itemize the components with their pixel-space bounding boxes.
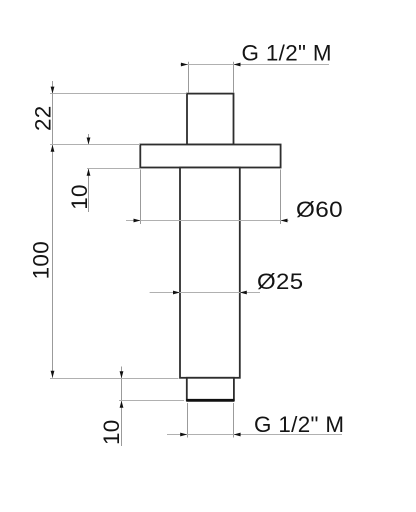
wire: bottom 10 dimension line <box>121 367 123 447</box>
wire: diameter 60 extension line left <box>140 170 142 225</box>
arrow: top dimension right arrowhead <box>234 63 241 67</box>
arrow: bottom thread right arrowhead <box>234 433 241 437</box>
svg-text:Ø25: Ø25 <box>257 269 304 294</box>
wire: top width dimension line <box>181 64 330 66</box>
label: diameter 25 dimension <box>257 269 304 294</box>
svg-text:10: 10 <box>99 419 124 445</box>
label: G 1/2" M top thread size <box>242 41 332 66</box>
arrow: bottom 10 top arrowhead <box>120 371 124 378</box>
wire: extension line at flange bottom level <box>87 168 140 170</box>
arrow: 100 dimension bottom arrowhead <box>51 371 55 378</box>
svg-text:G 1/2" M: G 1/2" M <box>254 412 344 437</box>
wire: bottom thread extension line left <box>187 403 189 438</box>
wire: extension line at pipe top level <box>50 93 187 95</box>
wire: extension line at bottom end level <box>119 400 184 402</box>
svg-text:Ø60: Ø60 <box>296 197 343 222</box>
wire: diameter 60 extension line right <box>280 170 282 225</box>
arrow: bottom 10 bottom arrowhead <box>120 401 124 408</box>
label: G 1/2" M bottom thread size <box>254 412 344 437</box>
arrow: shared arrowhead at flange top (22 bottom / 100 top) <box>51 145 55 152</box>
arrow: bottom thread left arrowhead <box>180 433 187 437</box>
wire: extension line at pipe bottom level <box>50 378 179 380</box>
wire: bottom thread extension line right <box>233 403 235 438</box>
component: main pipe body <box>180 168 240 378</box>
arrow: diameter 25 right arrowhead <box>240 291 247 295</box>
wire: top width dimension extension line left <box>188 62 190 93</box>
arrow: diameter 60 right arrowhead <box>281 219 288 223</box>
wire: flange thickness dimension line lower tail <box>88 169 90 213</box>
svg-text:22: 22 <box>31 105 56 131</box>
label: 22 dimension <box>31 105 56 131</box>
wire: left vertical dimension line (22 and 100) <box>52 81 54 378</box>
component: bottom threaded end <box>187 378 234 401</box>
arrow: flange 10 bottom arrowhead <box>87 169 91 176</box>
arrow: 22 dimension top arrowhead <box>51 87 55 94</box>
wire: top width dimension extension line right <box>233 62 235 93</box>
label: 10 bottom thread length dimension <box>99 419 124 445</box>
label: diameter 60 dimension <box>296 197 343 222</box>
arrow: flange 10 top arrowhead <box>87 138 91 145</box>
wire: diameter 60 dimension line <box>126 220 289 222</box>
wire: extension line at flange top level <box>50 144 140 146</box>
wire: diameter 25 dimension line <box>150 292 260 294</box>
wire: bottom end thick edge <box>186 399 234 402</box>
arrow: top dimension left arrowhead <box>181 63 188 67</box>
wire: bottom thread dimension line <box>167 434 342 436</box>
svg-text:G 1/2" M: G 1/2" M <box>242 41 332 66</box>
arrow: diameter 25 left arrowhead <box>173 291 180 295</box>
label: 10 flange thickness dimension <box>67 184 92 210</box>
label: 100 dimension <box>29 241 54 279</box>
svg-text:10: 10 <box>67 184 92 210</box>
svg-text:100: 100 <box>29 241 54 279</box>
arrow: diameter 60 left arrowhead <box>134 219 141 223</box>
component: ceiling flange plate <box>140 145 280 168</box>
component: top threaded pipe stub <box>187 94 234 145</box>
wire: flange thickness dimension line upper tail <box>88 134 90 144</box>
